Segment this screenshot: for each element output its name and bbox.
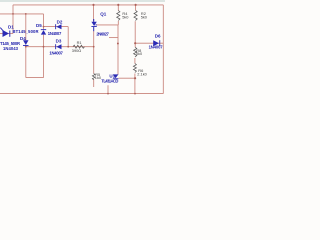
junction D6 row left bbox=[134, 42, 136, 44]
junction x13 rail2 bbox=[12, 13, 14, 15]
junction Q1 top bbox=[92, 4, 94, 6]
junction D2 tee bbox=[43, 26, 45, 28]
svg-text:Q1: Q1 bbox=[100, 12, 107, 17]
resistor R5 bbox=[92, 74, 95, 80]
resistor R6 bbox=[133, 64, 136, 73]
wire x13 drop bbox=[12, 5, 14, 34]
resistor R2 bbox=[134, 10, 137, 20]
svg-text:5k0: 5k0 bbox=[122, 15, 129, 20]
diode D5 bbox=[41, 29, 46, 34]
wire R2 column top bbox=[135, 5, 137, 10]
diode D6 bbox=[153, 40, 160, 46]
svg-text:1N4043: 1N4043 bbox=[3, 46, 19, 51]
diode D4 bbox=[23, 40, 29, 46]
wire bottom-left link bbox=[26, 77, 44, 79]
svg-text:1N4007: 1N4007 bbox=[49, 51, 63, 56]
wire R6 column bottom bbox=[134, 74, 136, 94]
thyristor D1 bbox=[0, 28, 10, 37]
wire R4 column stub bbox=[117, 21, 119, 25]
junction R4 top bbox=[117, 4, 119, 6]
wire below R5 bbox=[93, 79, 95, 87]
svg-text:TL431ACD: TL431ACD bbox=[101, 79, 118, 84]
shunt regulator U1 TL431 bbox=[113, 74, 119, 79]
wire D6 row bbox=[135, 42, 163, 44]
PUT Q1 bbox=[91, 19, 96, 31]
resistor R4 bbox=[117, 11, 120, 21]
wire stub y37.6 bbox=[109, 37, 118, 39]
wire Q1 anode bbox=[93, 5, 95, 22]
svg-text:5k0: 5k0 bbox=[136, 51, 143, 56]
wire top rail bbox=[13, 4, 163, 6]
top border artifact line bbox=[0, 0, 165, 2]
svg-text:1k0: 1k0 bbox=[95, 75, 102, 80]
wire TL431 ref row bbox=[119, 77, 136, 79]
junction R2 top bbox=[135, 4, 137, 6]
resistor R1 bbox=[73, 45, 85, 48]
wire R4 column top bbox=[117, 5, 119, 11]
wire x118 long drop bbox=[117, 25, 119, 75]
wire D5 column upper bbox=[43, 14, 45, 30]
junction stub bottom bbox=[107, 93, 109, 95]
svg-text:U1: U1 bbox=[109, 73, 115, 78]
junction R6 bottom bbox=[134, 93, 136, 95]
svg-text:D5: D5 bbox=[36, 23, 42, 28]
svg-text:2N6027: 2N6027 bbox=[96, 31, 109, 36]
wire D5 column lower bbox=[43, 35, 45, 78]
svg-text:D2: D2 bbox=[57, 19, 63, 24]
wire D3/R1 row bbox=[26, 46, 94, 48]
svg-text:D4: D4 bbox=[20, 36, 26, 41]
wire D1 row bbox=[0, 33, 13, 35]
svg-text:2.1k0: 2.1k0 bbox=[137, 72, 147, 77]
wire Q1 cathode column bbox=[93, 31, 95, 74]
wire Q1 gate row bbox=[97, 24, 119, 26]
resistor R8 bbox=[134, 47, 137, 57]
diode D3 bbox=[55, 44, 61, 49]
svg-text:5k0: 5k0 bbox=[141, 15, 148, 20]
svg-text:390Ω: 390Ω bbox=[72, 48, 81, 53]
junction row cross D5 bbox=[43, 46, 45, 48]
junction row Q1k bbox=[93, 46, 95, 48]
svg-text:1N4007: 1N4007 bbox=[149, 44, 164, 49]
wire R8-R6 link bbox=[134, 58, 136, 64]
diode D2 bbox=[55, 24, 61, 29]
wire x68 drop bbox=[67, 27, 69, 47]
junction row cross D4 bbox=[25, 46, 27, 48]
wire D4 column upper bbox=[25, 14, 27, 40]
svg-text:D6: D6 bbox=[155, 34, 161, 39]
svg-text:D3: D3 bbox=[56, 38, 62, 43]
svg-text:1N4007: 1N4007 bbox=[48, 31, 62, 36]
junction x118 y43 bbox=[117, 43, 119, 45]
svg-text:R1: R1 bbox=[77, 40, 82, 45]
wire TL431 anode stub bbox=[107, 85, 109, 93]
junction D4 rail2 bbox=[25, 13, 27, 15]
svg-text:BT145_500R: BT145_500R bbox=[13, 29, 39, 34]
wire D2 row bbox=[44, 26, 69, 28]
junction TL431 ref bbox=[134, 77, 136, 79]
wire rail2 bbox=[0, 13, 44, 15]
wire R2-R8 link bbox=[134, 21, 136, 47]
wire bottom rail bbox=[0, 93, 163, 95]
wire D4 column lower bbox=[25, 45, 27, 77]
wire right rail bbox=[162, 5, 164, 94]
junction row x68 bbox=[67, 46, 69, 48]
